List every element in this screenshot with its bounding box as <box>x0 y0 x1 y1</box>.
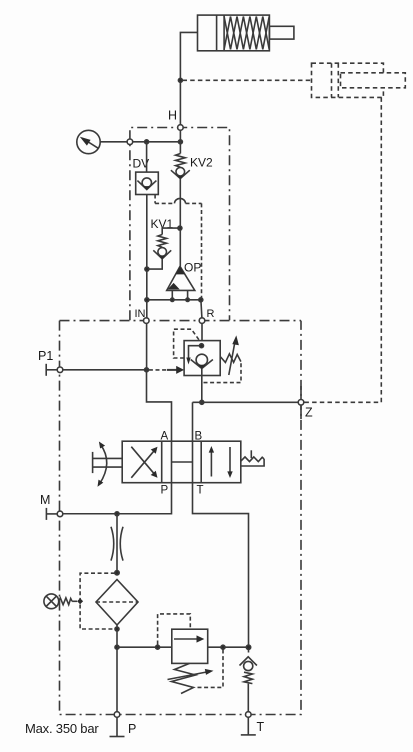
port M <box>57 511 63 517</box>
orifice (restrictor) <box>111 527 123 561</box>
DSV lever actuator <box>93 442 123 487</box>
P1 port tick <box>46 364 57 376</box>
DBV adjust arrow <box>168 669 214 680</box>
svg-text:P: P <box>161 485 169 497</box>
check valve KV2 <box>171 154 190 179</box>
boundary solid run at Z <box>300 386 302 419</box>
port P1 <box>57 367 63 373</box>
svg-text:M: M <box>40 493 50 507</box>
filter element <box>96 580 138 626</box>
T port tick <box>241 717 256 735</box>
filter dashed enclosure <box>80 573 115 629</box>
wire P down-left to M <box>63 483 172 514</box>
svg-text:OP: OP <box>184 261 201 275</box>
directional valve DSV body <box>122 441 241 483</box>
remote cylinder CYL2 (dashed) <box>312 63 406 97</box>
svg-text:IN: IN <box>135 308 146 320</box>
cylinder CYL1 (spring return) <box>198 15 294 51</box>
relief valve DBV square <box>172 629 208 663</box>
junction T line <box>246 645 250 649</box>
check valve KV1 <box>149 228 180 269</box>
wire DV down to IN <box>146 195 148 319</box>
svg-text:R: R <box>207 308 215 320</box>
P1 pilot arrow <box>167 366 184 374</box>
pilot line to remote cylinder (dashed) <box>183 79 312 81</box>
OP bottom manifold wire <box>147 299 201 301</box>
DSV centre box H-lines <box>172 441 193 483</box>
SRB adjust arrow <box>229 335 239 375</box>
wire B jog <box>192 402 194 441</box>
pilot-operated valve OP <box>167 266 195 300</box>
junction Z <box>200 400 204 404</box>
wire gauge-line down to DV <box>146 142 148 172</box>
enclosure upper dash-dot boundary (pilot head) <box>130 128 230 321</box>
SRB drain dashed (right) <box>204 363 242 383</box>
SRB pilot dashed (left loop) <box>174 329 200 358</box>
wire R down to pressure valve <box>201 323 203 340</box>
port R <box>199 318 205 324</box>
pressure gauge <box>77 130 127 153</box>
port T <box>246 712 252 718</box>
DSV right box parallel arrows <box>209 446 233 478</box>
junction branch to relief valve <box>115 645 119 649</box>
svg-text:B: B <box>195 431 203 443</box>
cylinder line wire <box>180 32 197 124</box>
svg-text:Z: Z <box>305 406 313 420</box>
wire DBV outlet to T line <box>208 646 249 648</box>
P1 pilot dashed to valve <box>149 369 167 371</box>
junction M line / filter branch <box>115 512 119 516</box>
junction inside SRB <box>200 344 204 348</box>
svg-text:P1: P1 <box>38 349 53 363</box>
junction KV1 branch <box>178 226 182 230</box>
wire to relief valve <box>117 646 172 648</box>
wire H to KV2 <box>179 130 181 153</box>
wire down to orifice <box>116 514 118 573</box>
DBV spring <box>172 663 196 693</box>
port IN <box>144 318 150 324</box>
gauge port on boundary <box>127 139 133 145</box>
DSV left box crossed arrows <box>131 447 157 478</box>
svg-text:H: H <box>168 109 177 123</box>
DBV drain dashed <box>196 650 224 688</box>
junction pilot branch <box>156 645 160 649</box>
node H <box>178 125 184 131</box>
wire IN down / A jog <box>146 323 148 369</box>
svg-text:T: T <box>197 485 204 497</box>
pressure relief valve SRB (square) <box>184 341 220 376</box>
svg-text:Max. 350 bar: Max. 350 bar <box>25 721 99 736</box>
junction KV2 line <box>178 140 182 144</box>
junction filter bottom <box>115 627 119 631</box>
DSV return spring <box>241 450 264 466</box>
wire check valve to T port <box>247 684 249 712</box>
svg-text:P: P <box>128 722 136 736</box>
DBV pilot dashed <box>158 614 191 645</box>
check valve DV (in square) <box>136 172 159 194</box>
junction DV branch <box>145 140 149 144</box>
clogging indicator <box>44 594 83 609</box>
svg-text:T: T <box>257 720 265 734</box>
wire KV2 down to OP <box>179 179 181 266</box>
junction dots on OP wire <box>145 298 149 302</box>
port P <box>114 712 120 718</box>
SRB spring (right) <box>220 354 241 363</box>
check valve RV (T line) <box>240 657 257 684</box>
remote cylinder pilot line Z (dashed) <box>304 97 382 402</box>
P port tick <box>110 717 125 736</box>
wire T down-right <box>193 483 249 653</box>
junction P1 / IN line <box>145 368 149 372</box>
gauge internal wire <box>133 141 181 143</box>
wire junction to Z port <box>193 401 298 403</box>
wire filter to bottom junction <box>116 625 118 712</box>
P1 wire <box>63 369 147 371</box>
svg-text:KV2: KV2 <box>190 156 213 170</box>
port Z <box>298 400 304 406</box>
junction orifice / indicator box <box>115 571 119 575</box>
cylinder branch junction <box>178 78 182 82</box>
svg-text:A: A <box>161 431 169 443</box>
junction KV1 to DV line <box>145 267 149 271</box>
wire SRB down to Z junction <box>201 369 203 403</box>
M port tick <box>46 508 57 520</box>
DV pilot line (dashed with hop) <box>155 195 201 298</box>
enclosure main block dash-dot boundary <box>60 321 302 715</box>
wire to R port <box>201 300 202 318</box>
junction DBV drain <box>221 645 225 649</box>
